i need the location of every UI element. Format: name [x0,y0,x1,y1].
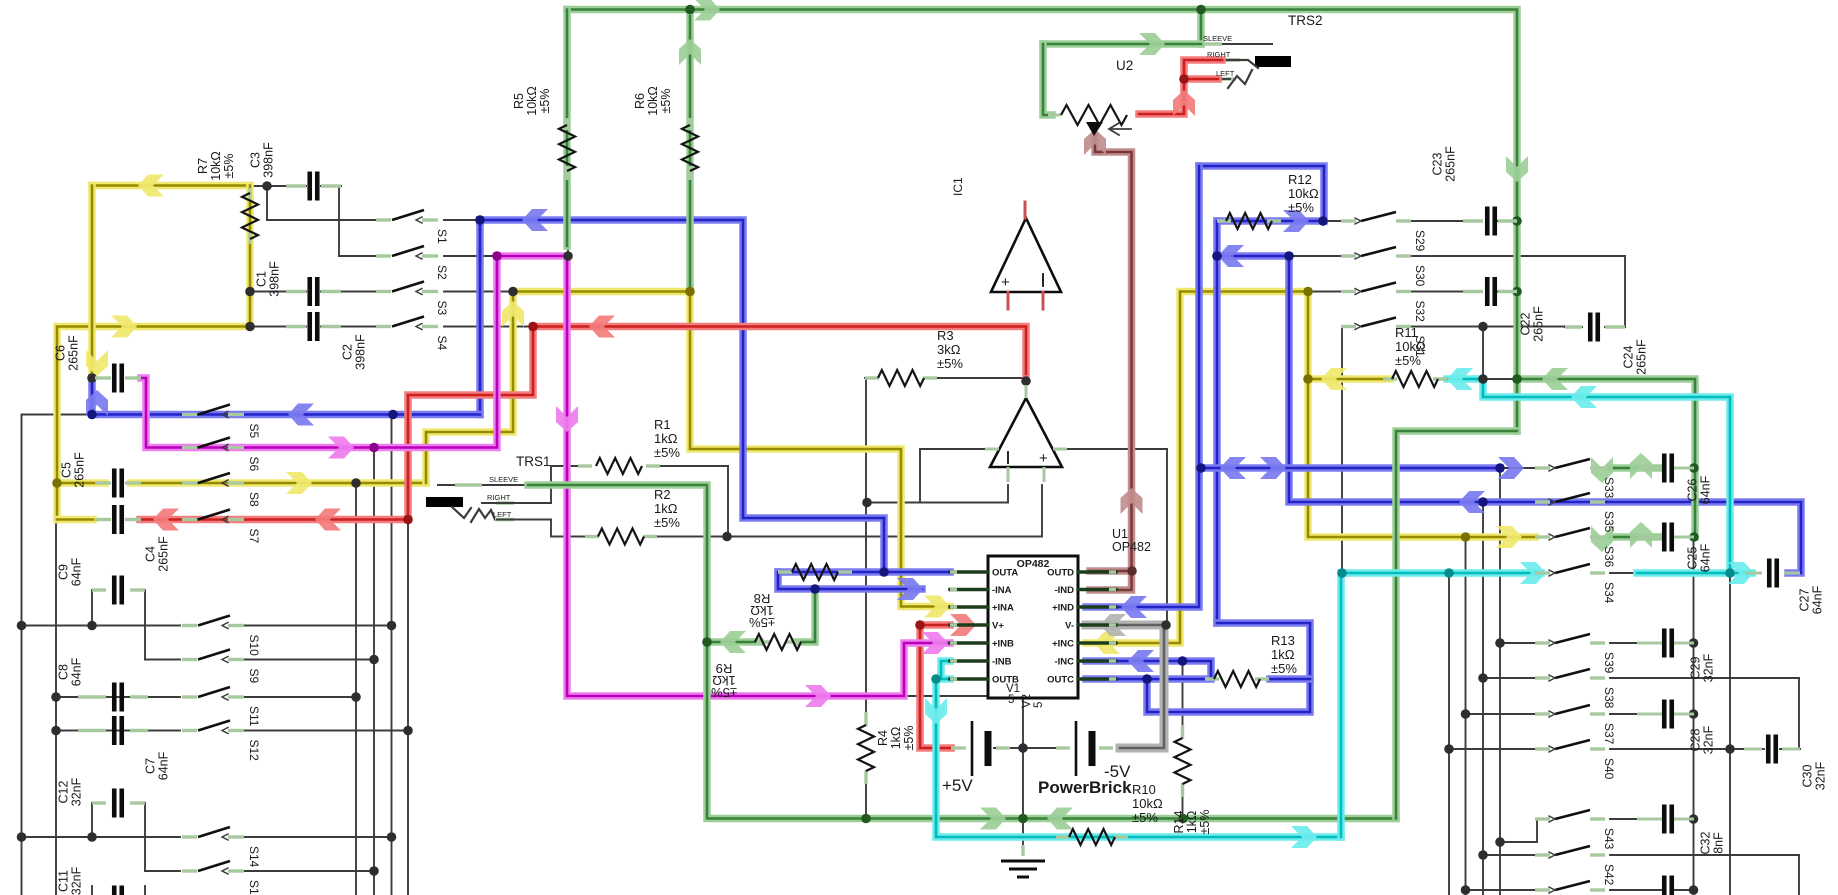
capacitor C3 [286,184,306,187]
switch S33 [1535,466,1550,469]
junction node at 920,625 [915,620,925,630]
svg-text:S13: S13 [247,880,261,895]
svg-text:R12: R12 [1288,172,1312,187]
wire blue R12 row [1217,217,1323,225]
junction node at 391.5,837 [387,832,397,842]
wire green R9 spur [707,638,760,646]
resistor R10 [1056,835,1070,838]
junction node at 1730,573 [1725,568,1735,578]
svg-text:U2: U2 [1116,58,1133,73]
svg-text:C25: C25 [1686,546,1700,569]
junction node at 936,679 [931,674,941,684]
junction node at 1323,221 [1318,216,1328,226]
switch S11 [182,695,197,698]
wire S30 row long [1289,255,1341,257]
wire C2 row / S4 [250,326,306,328]
left bus A (S5/S10/S14 pin1 side) [22,414,93,416]
svg-text:S9: S9 [247,669,261,684]
wire R14 link [1182,661,1184,728]
svg-text:+IND: +IND [1052,603,1074,614]
svg-text:C24: C24 [1622,345,1636,368]
svg-text:S35: S35 [1602,511,1616,533]
svg-text:64nF: 64nF [157,751,171,780]
junction node at 267,186 [262,181,272,191]
potentiometer U2 [1048,114,1061,117]
junction node at 374,659.5 [369,655,379,665]
wire S1 row [267,219,378,221]
capacitor C11 (partial) [112,886,117,895]
svg-text:OUTD: OUTD [1047,568,1074,579]
junction node at 1449,749 [1444,744,1454,754]
junction node at 1023,748 [1018,743,1028,753]
wire S42 row [1483,854,1535,856]
arrows red [1173,90,1195,116]
svg-text:V-: V- [1065,621,1074,632]
svg-text:OP482: OP482 [1017,558,1050,570]
svg-text:+INA: +INA [992,603,1014,614]
junction node at 815,589 [810,584,820,594]
wire blue OUTA row [778,568,950,576]
wire S41 row [1466,889,1536,891]
svg-text:1kΩ: 1kΩ [654,431,678,446]
svg-text:S32: S32 [1413,301,1427,323]
junction node at 1693.5,819 [1689,814,1699,824]
wire blue R12 net [1199,166,1324,221]
resistor R5 [565,118,568,130]
svg-text:32nF: 32nF [1814,761,1828,790]
arrows yellow [138,175,164,197]
arrows blue [522,209,548,231]
right bus x1449 [1448,573,1450,895]
svg-text:OUTA: OUTA [992,568,1018,579]
switch S7 [182,518,197,521]
TRS2 jack [1255,56,1291,67]
wire S29 row [1323,220,1341,222]
junction node at 867,502.5 [862,498,872,508]
svg-text:10kΩ: 10kΩ [646,86,660,116]
switch S2 [376,254,391,257]
wire red TRS2 to pot [1139,60,1222,114]
svg-text:S40: S40 [1602,758,1616,780]
wire C1 row / S3 [250,291,306,293]
switch S9 [182,658,197,661]
svg-text:C6: C6 [54,345,68,361]
svg-text:S5: S5 [247,424,261,439]
svg-text:C28: C28 [1689,728,1703,751]
junction node at 707,642 [702,637,712,647]
svg-text:R10: R10 [1132,782,1156,797]
svg-text:C23: C23 [1431,152,1445,175]
svg-text:SLEEVE: SLEEVE [1203,34,1232,43]
switch S1 [376,218,391,221]
svg-text:S4: S4 [435,336,449,351]
wire green R5 [563,10,571,247]
wire yellow S32-R11-S36 [1308,292,1535,538]
svg-text:±5%: ±5% [538,89,552,114]
wire magenta S2 to +INB [497,256,950,696]
svg-text:LEFT: LEFT [1216,69,1235,78]
switch S40 [1535,747,1550,750]
capacitor C7 [78,729,106,732]
svg-text:10kΩ: 10kΩ [525,86,539,116]
svg-text:RIGHT: RIGHT [487,493,511,502]
junction node at 1500,468 [1495,463,1505,473]
battery V1 +5V [951,746,966,749]
svg-text:C7: C7 [144,758,158,774]
svg-text:SLEEVE: SLEEVE [489,475,518,484]
svg-text:R7: R7 [196,158,210,174]
wire S37 row [1466,713,1536,715]
svg-text:1kΩ: 1kΩ [1271,647,1295,662]
wire C3 node [250,185,306,187]
svg-text:-INC: -INC [1054,657,1074,668]
svg-text:R2: R2 [654,487,671,502]
junction node at 21.5,837 [17,832,27,842]
junction node at 480,220 [475,215,485,225]
wire opamp2 pin4 to V- [1053,448,1167,450]
svg-text:C2: C2 [341,344,355,360]
junction node at 1308,379 [1303,374,1313,384]
svg-text:R1: R1 [654,417,671,432]
wire gray V- supply [1086,625,1164,748]
junction node at 1217,256 [1212,251,1222,261]
svg-text:C29: C29 [1689,656,1703,679]
resistor R8 [778,570,792,573]
svg-text:S36: S36 [1602,546,1616,568]
junction node at 250,291.5 [245,287,255,297]
svg-text:C1: C1 [255,271,269,287]
svg-text:32nF: 32nF [70,866,84,895]
TRS1 jack [426,497,463,507]
switch S8 [182,481,197,484]
svg-text:C32: C32 [1699,831,1713,854]
svg-text:5: 5 [1033,702,1045,708]
junction node at 250,326.5 [245,322,255,332]
IC U1 OP482 [988,556,1078,698]
junction node at 1201,9.5 [1196,5,1206,15]
wire yellow loop top-left [92,182,250,190]
wire red V+ supply [920,625,951,748]
junction node at 92,378 [87,373,97,383]
svg-text:C4: C4 [144,546,158,562]
wire S9 row [145,659,180,661]
wire blue S30 [1217,256,1801,573]
switch S41 [1535,888,1550,891]
ground [1021,845,1024,856]
resistor R2 [585,535,599,538]
svg-text:V2: V2 [1021,694,1033,708]
junction node at 1182.5,661 [1178,656,1188,666]
wire blue S1 net [480,220,884,572]
junction node at 884,572 [879,567,889,577]
wire yellow right S32 [1086,292,1308,644]
switch S32 [1341,290,1356,293]
resistor R1 [578,464,592,467]
svg-text:±5%: ±5% [937,356,963,371]
svg-text:C5: C5 [60,462,74,478]
svg-text:265nF: 265nF [1635,339,1649,375]
svg-text:1kΩ: 1kΩ [654,501,678,516]
svg-text:+: + [1039,450,1048,467]
svg-text:R4: R4 [876,730,890,746]
switch S6 [182,446,197,449]
wire S10 row [22,625,181,627]
switch S3 [376,290,391,293]
bus x408 (S7-S12) [407,520,409,895]
svg-text:V+: V+ [992,621,1004,632]
svg-text:10kΩ: 10kΩ [1288,186,1319,201]
svg-text:3kΩ: 3kΩ [937,342,961,357]
wire green TRS2 sleeve to pot [1197,10,1205,45]
svg-text:LEFT: LEFT [493,510,512,519]
switch S14 [182,835,197,838]
wire C24 row [1565,326,1582,328]
op-amp IC1 upper [991,218,1061,292]
wire S32 row [1308,291,1341,293]
wire blue S33 row [1201,464,1500,472]
junction node at 391.5,625.5 [387,621,397,631]
wire yellow S3 to R6 [513,288,690,296]
wire S12 row [56,730,180,732]
svg-text:S29: S29 [1413,230,1427,252]
capacitor C23 [1463,219,1483,222]
bus x391 (S5-S10-S14) [391,415,393,895]
junction node at 1693.5,714 [1689,709,1699,719]
junction node at 1289,256 [1284,251,1294,261]
arrows cyan [925,698,947,724]
junction node at 1517,291.5 [1512,287,1522,297]
svg-text:±5%: ±5% [659,89,673,114]
svg-text:265nF: 265nF [73,452,87,488]
svg-text:S37: S37 [1602,723,1616,745]
switch S13 [182,869,197,872]
svg-text:S14: S14 [247,846,261,868]
wire green R6 [686,16,694,287]
svg-text:C27: C27 [1798,588,1812,611]
capacitor C32 [1637,818,1662,821]
svg-text:±5%: ±5% [1288,200,1314,215]
svg-text:64nF: 64nF [1699,475,1713,504]
switch S34 [1535,571,1550,574]
wire blue S5 row [92,378,480,415]
junction node at 408,730.5 [403,726,413,736]
switch S10 [182,624,197,627]
junction node at 1183,818.5 [1178,814,1188,824]
bus x374 (S6-S9-S13) [373,448,375,895]
svg-text:64nF: 64nF [70,657,84,686]
svg-text:398nF: 398nF [262,142,276,178]
wire S40 row [1449,748,1535,750]
svg-text:S1: S1 [435,229,449,244]
wire green top rail [567,10,1517,432]
switch S37 [1535,712,1550,715]
junction node at 1693.5,890 [1689,885,1699,895]
junction node at 1465.5,537 [1461,532,1471,542]
junction node at 1693.5,643 [1689,638,1699,648]
junction node at 727,536.5 [722,532,732,542]
junction node at 497,256 [492,251,502,261]
svg-text:265nF: 265nF [157,536,171,572]
right bus x1466 [1465,537,1467,895]
junction node at 1500,643 [1495,638,1505,648]
wire S33 row [1500,467,1535,469]
capacitor C22 [1463,290,1483,293]
junction node at 568,256 [563,251,573,261]
svg-text:64nF: 64nF [1811,585,1825,614]
junction node at 1483,678 [1478,673,1488,683]
svg-text:±5%: ±5% [1395,353,1421,368]
capacitor C30 [1744,748,1762,751]
svg-text:-INA: -INA [992,585,1012,596]
svg-text:±5%: ±5% [1271,661,1297,676]
svg-text:R11: R11 [1395,325,1418,340]
switch S5 [182,413,197,416]
junction node at 92,625.5 [87,621,97,631]
junction node at 1500,842 [1495,837,1505,847]
resistor R13 [1205,677,1219,680]
svg-text:+: + [1001,274,1010,291]
junction node at 1449,573 [1444,568,1454,578]
capacitor C1 [286,290,306,293]
svg-text:TRS2: TRS2 [1288,13,1323,28]
svg-text:398nF: 398nF [268,261,282,297]
svg-text:R14: R14 [1172,810,1186,833]
wire cyan OUTB feedback [941,661,950,679]
svg-text:265nF: 265nF [67,335,81,371]
junction node at 1694,468 [1689,463,1699,473]
wire S13 row [145,870,180,872]
svg-text:C3: C3 [249,152,263,168]
switch S29 [1341,219,1356,222]
svg-text:S33: S33 [1602,477,1616,499]
svg-text:TRS1: TRS1 [516,454,551,469]
svg-text:S34: S34 [1602,582,1616,604]
capacitor C29 [1637,642,1662,645]
svg-text:C11: C11 [57,870,71,892]
right bus x1730 [1729,573,1731,895]
wire R3 row [865,377,878,379]
junction node at 1483,502 [1478,497,1488,507]
wire S31 row [1412,326,1565,328]
wire S11 row [56,696,180,698]
svg-text:±5%: ±5% [654,445,680,460]
junction node at 690,9.5 [685,5,695,15]
junction node at 1483,855 [1478,850,1488,860]
capacitor C12 [92,801,106,804]
op-amp IC1 lower [990,398,1062,467]
wire R1/R2 junction to +in [727,466,729,537]
svg-text:S42: S42 [1602,864,1616,886]
wire S14 row [22,836,181,838]
svg-text:RIGHT: RIGHT [1207,50,1231,59]
wire C12 links [91,803,93,837]
capacitor C9 [92,588,106,591]
junction node at 1132,571 [1127,566,1137,576]
capacitor C5 [95,481,111,484]
svg-text:S11: S11 [247,706,261,727]
junction node at 56,730.5 [51,726,61,736]
svg-text:±5%: ±5% [1132,810,1158,825]
wire S36 row [1610,536,1662,538]
svg-text:+5V: +5V [942,776,973,795]
wire opamp2 pin8 [920,448,999,450]
svg-text:64nF: 64nF [1699,543,1713,572]
svg-text:S8: S8 [247,492,261,507]
svg-text:-INB: -INB [992,657,1012,668]
arrows magenta [328,437,354,459]
junction node at 356,697 [351,692,361,702]
svg-text:10kΩ: 10kΩ [1395,339,1426,354]
svg-text:S10: S10 [247,635,261,657]
junction node at 1517,221 [1512,216,1522,226]
capacitor C31 (partial) [1662,876,1667,895]
svg-text:265nF: 265nF [1444,146,1458,182]
junction node at 513,291.5 [508,287,518,297]
arrows green [694,0,720,21]
wire green S36-C25 [1610,533,1662,541]
junction node at 1483,326.5 [1478,322,1488,332]
wire R2 row [551,536,585,538]
svg-text:S7: S7 [247,529,261,544]
resistor R9 [756,640,770,643]
wire R1 row [551,465,578,467]
wire R5 bottom link [567,246,569,256]
wire S31 to S34 vertical [1341,327,1343,574]
switch S43 [1535,817,1550,820]
svg-text:R5: R5 [512,93,526,109]
svg-text:-IND: -IND [1054,585,1074,596]
svg-text:R6: R6 [633,93,647,109]
wire yellow S8-S3 riser [426,292,513,484]
svg-text:5: 5 [1008,694,1014,706]
wire blue R13 loop [1147,623,1310,712]
right bus x1693 (cap pin1) [1693,537,1695,895]
wire red S4 to S7 [140,327,533,520]
svg-text:C8: C8 [57,664,71,680]
svg-text:S39: S39 [1602,652,1616,674]
resistor R6 [688,118,691,130]
svg-text:±5%: ±5% [222,154,236,179]
wire S43 row jog [1500,819,1541,842]
wire brown pot wiper to OUTD [1090,136,1132,590]
junction node at 356,483 [351,478,361,488]
svg-text:C12: C12 [57,780,71,803]
junction node at 1730,749 [1725,744,1735,754]
wire cyan to S34 [1341,573,1541,837]
junction node at 1694,537 [1689,532,1699,542]
svg-text:S43: S43 [1602,828,1616,850]
wire C9 links [91,590,93,626]
svg-text:S38: S38 [1602,687,1616,709]
wire S2 row [339,255,378,257]
svg-text:S3: S3 [435,301,449,316]
capacitor C25 [1637,536,1662,539]
junction node at 374,447.5 [369,443,379,453]
svg-text:8nF: 8nF [1712,832,1726,854]
junction node at 866,818.5 [861,814,871,824]
wire C11 links (partial bottom) [91,886,93,895]
arrows brown [1084,129,1106,155]
junction node at 1026,381 [1021,376,1031,386]
wire yellow R6 to +INA [690,292,950,607]
capacitor C8 [78,695,106,698]
svg-text:10kΩ: 10kΩ [1132,796,1163,811]
svg-text:+INB: +INB [992,639,1014,650]
resistor R14 [1181,725,1184,739]
junction node at 374,871 [369,866,379,876]
svg-text:R13: R13 [1271,633,1295,648]
junction node at 1201,468 [1196,463,1206,473]
